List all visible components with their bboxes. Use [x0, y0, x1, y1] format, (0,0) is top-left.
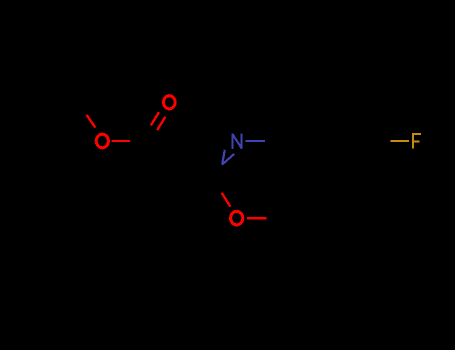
- node N imine nitrogen label: [233, 133, 242, 149]
- node O3 ether oxygen label: [231, 211, 243, 225]
- wire bond C3-O3 (red half, lower diagonal): [222, 193, 231, 207]
- wire bond CH2-O (ester, upper-left red half): [87, 115, 96, 128]
- node O1 ester oxygen label: [96, 134, 108, 148]
- node O2 carbonyl oxygen label: [163, 96, 175, 109]
- wire bond N-phenyl (blue half): [246, 140, 266, 142]
- wire bond phenyl-F (gold half): [390, 140, 409, 142]
- wire bond O3-CH2 (red half, to right): [247, 217, 266, 219]
- wire C=N crossed double bond arm a (blue half, steep): [222, 150, 225, 165]
- wire bond O1-C(=O) red half: [112, 140, 130, 142]
- wire C=N crossed double bond arm b (blue half, diagonal): [222, 154, 234, 165]
- wire C=O double bond line b (red half): [157, 117, 165, 130]
- node F fluorine label: [412, 133, 421, 149]
- wire C=O double bond line a (red half): [151, 112, 159, 125]
